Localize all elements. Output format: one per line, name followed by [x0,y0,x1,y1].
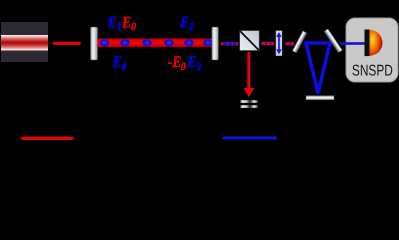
label E2 [179,13,189,31]
wire: reflected beam down (red arrow) [247,52,250,89]
wire: output beam to SNSPD [340,42,366,45]
label E0 [121,13,131,31]
svg-text:0: 0 [181,61,186,73]
atom 4 [164,39,174,46]
steering mirror M3 [292,31,307,53]
beamsplitter diagonal [240,31,259,50]
label E4 [112,53,122,71]
beam dump plate 2 [240,105,258,108]
beamsplitter cube [240,31,260,51]
svg-text:3: 3 [195,61,201,73]
wire: beam etalon to steering mirror M3 (blue with red dots) [285,42,295,46]
etalon left plate [274,31,276,56]
steering mirror M4 [324,29,342,53]
label -E0 [168,53,182,71]
legend quantum beam (blue) [222,136,277,139]
wire: beam beamsplitter to etalon (blue with red dots) [261,42,275,46]
svg-text:2: 2 [188,21,194,33]
svg-text:-E: -E [168,53,182,71]
etalon right plate [282,31,284,56]
SNSPD box [346,18,398,82]
svg-text:1: 1 [117,21,122,33]
mirror M5 (bottom of delay line) [306,96,334,100]
wire: beam laser to cavity mirror M1 [53,42,81,45]
svg-text:E: E [179,13,189,31]
atom 2 [120,39,130,46]
label E3 [187,53,197,71]
atom 6 [203,39,213,46]
detector active element [370,30,383,56]
legend classical beam (red) [21,137,74,140]
cavity mirror M1 [91,27,98,60]
etalon spacer [276,31,282,56]
wire: intracavity beam [98,38,213,48]
wire: delay triangle beam [306,43,330,93]
atom 5 [184,39,194,46]
svg-text:SNSPD: SNSPD [352,62,393,79]
beam dump plate 1 [240,100,258,103]
laser gain stripe [1,35,48,51]
detector face plate [365,30,370,57]
laser housing [1,22,48,62]
svg-text:4: 4 [120,61,126,73]
etalon tuning arrow [276,32,282,54]
atom 3 [142,39,152,46]
svg-text:0: 0 [131,21,136,33]
svg-text:E: E [121,13,131,31]
atom 1 [100,39,110,46]
svg-text:E: E [187,53,197,71]
wire: beam M2 to beamsplitter (red with blue dots) [221,42,238,46]
svg-text:E: E [107,13,117,31]
cavity mirror M2 [212,27,219,60]
label E1 [107,13,117,31]
